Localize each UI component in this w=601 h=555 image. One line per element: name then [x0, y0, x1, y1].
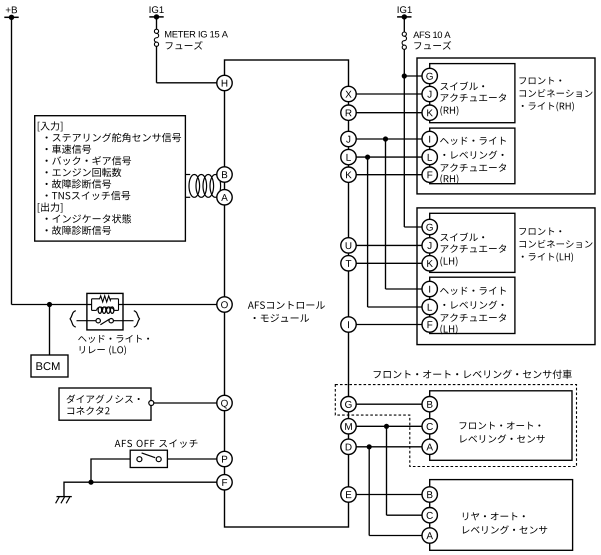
label AFS control module — [248, 301, 325, 309]
label rear auto leveling sensor — [463, 512, 525, 520]
junction J chain — [383, 136, 388, 141]
label AFS OFF switch — [115, 439, 198, 447]
wire BCM drop — [49, 305, 51, 356]
wire pin R to K swivel RH — [356, 112, 422, 114]
wire J chain down — [385, 139, 387, 289]
junction switch/ground — [88, 480, 93, 485]
diagnosis connector terminal — [149, 401, 154, 406]
label IG1 left — [150, 6, 164, 13]
pin J at (348.5,139.0) — [341, 131, 356, 146]
pin O at (224.5,304.5) — [217, 297, 232, 312]
note box input/output signals — [35, 116, 186, 241]
pin C at (429.7,515.2) — [422, 508, 437, 523]
wire pin T to K swivel LH — [356, 262, 422, 264]
pin F at (224.5,482.3) — [217, 475, 232, 490]
wire corner to pin H — [157, 82, 217, 84]
pin A at (224.5,197.3) — [217, 190, 232, 205]
relay brace left — [70, 311, 76, 327]
wire pin K to F leveling RH — [356, 174, 422, 176]
wire power to G swivel LH — [404, 226, 422, 228]
wire pin E to B rear sensor — [356, 494, 422, 496]
relay switch wire — [77, 320, 97, 322]
wire pin F to ground — [64, 482, 217, 496]
pin X at (348.5,94.0) — [341, 86, 356, 101]
relay brace right — [134, 311, 140, 327]
pin B at (429.7,494.5) — [422, 487, 437, 502]
pin G at (429.7,76.0) — [422, 68, 437, 83]
junction +B/BCM — [47, 302, 52, 307]
label fuse AFS 10A — [413, 32, 450, 39]
swivel actuator LH box — [430, 213, 515, 272]
junction L chain — [365, 155, 370, 160]
pin E at (348.5,494.5) — [341, 487, 356, 502]
pin P at (224.5,459.0) — [217, 451, 232, 466]
label swivel actuator RH — [440, 82, 484, 91]
pin I at (348.5,324.5) — [341, 317, 356, 332]
wire diagnosis connector to pin Q — [154, 402, 217, 404]
fuse AFS 10A — [402, 32, 406, 36]
pin R at (348.5,112.7) — [341, 105, 356, 120]
wire relay to pin O — [119, 304, 217, 306]
pin U at (348.5,245.4) — [341, 238, 356, 253]
relay resistor — [92, 296, 119, 302]
relay headlight LO box — [87, 293, 123, 330]
dashed option outline — [335, 385, 576, 467]
pin T at (348.5,263.3) — [341, 256, 356, 271]
wire D chain down — [368, 447, 370, 536]
wire pin G to B front sensor — [356, 403, 422, 405]
fuse METER IG 15A — [154, 29, 158, 33]
wire power down to G swivel LH — [403, 76, 405, 227]
relay switch blade — [100, 319, 109, 325]
wire pin J to I leveling RH — [356, 138, 422, 140]
wire AFS OFF switch to pin P — [167, 458, 216, 460]
wire L chain to L leveling LH — [368, 306, 422, 308]
pin G at (348.5,404.2) — [341, 397, 356, 412]
pin A at (429.7,535.5) — [422, 528, 437, 543]
rear auto leveling sensor box — [430, 480, 573, 551]
AFS OFF switch blade — [142, 453, 156, 458]
junction AFS power — [402, 73, 407, 78]
wire pin U to J swivel LH — [356, 244, 422, 246]
front combination light RH outer box — [417, 58, 595, 194]
label swivel actuator LH — [440, 233, 484, 242]
pin L at (429.7,157.1) — [422, 149, 437, 164]
pin C at (429.7,426.3) — [422, 419, 437, 434]
label diagnosis connector 2 — [66, 394, 139, 403]
pin I at (429.7,139.0) — [422, 131, 437, 146]
wire J chain to I leveling LH — [386, 288, 423, 290]
label front auto leveling sensor — [460, 422, 541, 430]
pin K at (348.5,174.7) — [341, 167, 356, 182]
pin L at (348.5,157.1) — [341, 149, 356, 164]
wire M chain to C rear sensor — [387, 514, 423, 516]
pin B at (224.5,174.5) — [217, 167, 232, 182]
label front combination light LH — [519, 228, 561, 236]
swivel actuator RH box — [430, 64, 515, 123]
label front combination light RH — [519, 77, 561, 85]
label leveling actuator LH — [440, 287, 506, 295]
wire IG1 left down to fuse — [156, 17, 158, 30]
pin K at (429.7,112.7) — [422, 105, 437, 120]
ground chassis — [57, 496, 72, 498]
power IG1 left — [149, 16, 163, 18]
module AFS control box — [225, 60, 349, 527]
AFS OFF switch box — [130, 450, 167, 467]
junction M chain — [384, 424, 389, 429]
wire L chain down — [367, 157, 369, 307]
wire +B to relay — [12, 304, 92, 306]
label headlight relay LO — [78, 335, 149, 343]
power +B — [4, 16, 18, 18]
wire M chain down — [386, 426, 388, 515]
label +B — [6, 6, 17, 13]
wire IG1 right down to fuse — [403, 17, 405, 32]
pin B at (429.7,404.2) — [422, 397, 437, 412]
pin A at (429.7,446.8) — [422, 439, 437, 454]
wire pin I to F leveling LH — [356, 324, 422, 326]
pin L at (429.7,307.0) — [422, 299, 437, 314]
power IG1 right — [397, 16, 411, 18]
BCM box — [31, 355, 68, 377]
front auto leveling sensor box — [430, 391, 572, 461]
pin I at (429.7,289.0) — [422, 281, 437, 296]
relay switch contacts — [96, 319, 100, 323]
pin H at (224.5,83.0) — [217, 75, 232, 90]
label fuse METER IG 15A — [165, 31, 228, 38]
relay inner frame sides — [91, 299, 93, 311]
headlight leveling actuator RH box — [430, 128, 515, 184]
wire pin L to L leveling RH — [356, 156, 422, 158]
wire +B rail down — [11, 17, 13, 304]
wire pin X to J swivel RH — [356, 93, 422, 95]
relay coil — [92, 309, 97, 311]
label cars with front auto leveling sensor — [374, 370, 572, 379]
pin J at (429.7,245.4) — [422, 238, 437, 253]
junction D chain — [367, 444, 372, 449]
label leveling actuator RH — [440, 137, 506, 145]
wire fuse to corner — [156, 46, 158, 83]
pin G at (429.7,227.0) — [422, 219, 437, 234]
pin J at (429.7,94.0) — [422, 86, 437, 101]
pin K at (429.7,263.3) — [422, 256, 437, 271]
front combination light LH outer box — [417, 208, 595, 345]
wire AFS fuse down to junction — [403, 49, 405, 76]
wire power to G swivel RH — [404, 75, 422, 77]
label IG1 right — [398, 6, 412, 13]
label BCM — [36, 362, 59, 370]
wire pin M to C front sensor — [356, 425, 422, 427]
wire D chain to A rear sensor — [369, 535, 422, 537]
pin Q at (224.5,403.0) — [217, 395, 232, 410]
diagnosis connector box — [59, 388, 151, 420]
wire pin D to A front sensor — [356, 446, 422, 448]
wire AFS OFF switch left leg — [91, 459, 130, 482]
coil link to pins B/A — [185, 174, 190, 176]
headlight leveling actuator LH box — [430, 277, 515, 333]
pin F at (429.7,324.5) — [422, 317, 437, 332]
pin F at (429.7,174.7) — [422, 167, 437, 182]
pin D at (348.5,446.8) — [341, 439, 356, 454]
AFS OFF switch contacts — [137, 457, 142, 462]
pin M at (348.5,426.3) — [341, 419, 356, 434]
